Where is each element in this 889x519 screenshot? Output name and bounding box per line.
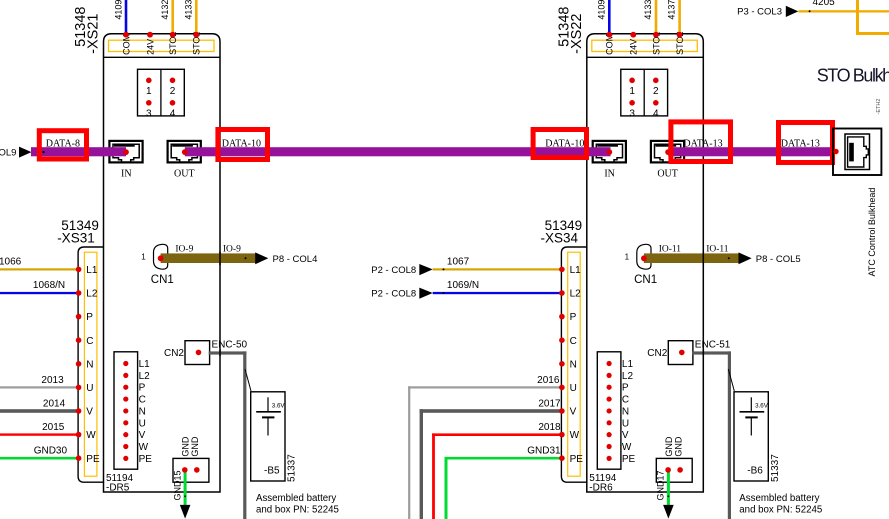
svg-text:GND30: GND30 [34, 446, 68, 457]
svg-text:DATA-13: DATA-13 [683, 139, 722, 150]
wire IO-9 (olive bus) [161, 253, 256, 263]
svg-text:51337: 51337 [770, 454, 781, 482]
svg-text:Assembled battery: Assembled battery [739, 493, 819, 504]
svg-text:and box PN: 52245: and box PN: 52245 [256, 505, 339, 516]
svg-text:1: 1 [141, 253, 146, 262]
svg-text:W: W [570, 430, 580, 441]
net box DATA-13 [671, 122, 731, 162]
wire DATA-13 segment (purple, right OUT to bulkhead) [668, 147, 835, 156]
pin 1 [629, 78, 635, 84]
svg-text:P2 - COL8: P2 - COL8 [371, 265, 416, 276]
svg-text:3: 3 [629, 108, 635, 119]
ATC control bulkhead jack box [833, 129, 881, 176]
svg-text:ENC-50: ENC-50 [212, 340, 248, 351]
battery -B6 box [734, 392, 768, 481]
node on wire 1069/N [443, 292, 445, 294]
node at bulkhead jack [833, 149, 838, 154]
svg-text:1066: 1066 [0, 256, 22, 267]
svg-text:1: 1 [629, 86, 635, 97]
wire 1067 (amber, to L1) [433, 268, 562, 270]
connector CN2 [668, 341, 693, 365]
svg-text:-B6: -B6 [747, 466, 763, 477]
svg-text:N: N [139, 406, 146, 417]
CN2 pin node [196, 350, 202, 356]
node on wire 1067 [443, 268, 445, 270]
svg-text:-XS31: -XS31 [57, 230, 95, 245]
51194-DR6 pin L1 [607, 361, 612, 366]
battery symbol [750, 397, 752, 411]
svg-text:V: V [139, 430, 146, 441]
arrow to P8 - COL5 [739, 252, 752, 264]
node right IN jack [606, 149, 612, 155]
CN1 pin node [641, 255, 647, 261]
svg-text:GND17: GND17 [656, 470, 666, 500]
svg-text:2: 2 [170, 86, 176, 97]
leader line to battery [245, 369, 251, 391]
node on DATA-8 wire [42, 151, 44, 153]
svg-text:24V: 24V [629, 39, 639, 55]
svg-text:ENC-51: ENC-51 [695, 340, 731, 351]
pin 4 [170, 100, 176, 106]
connector strip orange frame 51348-XS22 [592, 40, 698, 51]
CN2 pin node [679, 350, 685, 356]
51194-DR6 pin V [607, 432, 612, 437]
svg-text:-DR5: -DR5 [106, 482, 130, 493]
svg-text:2018: 2018 [538, 422, 561, 433]
51349-XS31 pin W node [76, 432, 82, 438]
connector strip separator 51348-XS22 [587, 56, 704, 58]
node left OUT jack [182, 149, 188, 155]
net box DATA-13 [779, 123, 833, 163]
svg-text:51337: 51337 [287, 454, 298, 482]
node right OUT jack [665, 149, 671, 155]
51194-DR6 pin PE [607, 456, 612, 461]
svg-text:1069/N: 1069/N [447, 280, 479, 291]
ground pin node 2 [194, 467, 200, 473]
connector CN1 [637, 244, 651, 269]
svg-text:2015: 2015 [42, 422, 65, 433]
51349-XS31 pin C node [76, 337, 82, 343]
svg-text:L2: L2 [139, 371, 151, 382]
ground pin node 1 [182, 467, 188, 473]
leader line to battery [728, 369, 734, 391]
51194-DR5 pin C [123, 396, 128, 401]
arrow P3-COL3 [786, 6, 799, 17]
51349-XS31 pin L1 node [76, 267, 82, 273]
51349-XS31 pin V node [76, 408, 82, 414]
svg-text:PE: PE [570, 454, 584, 465]
svg-text:U: U [622, 418, 629, 429]
wire 4133 (amber, to STO1) [655, 0, 658, 34]
svg-text:C: C [86, 336, 93, 347]
svg-text:IO-9: IO-9 [223, 244, 241, 254]
wire 4109 (blue, to COM) [608, 0, 611, 34]
yellow bus corner (vertical) [856, 0, 859, 35]
svg-text:P2 - COL8: P2 - COL8 [371, 289, 416, 300]
node on wire 4205 [809, 10, 811, 12]
svg-text:L2: L2 [86, 289, 98, 300]
svg-text:GND: GND [664, 436, 674, 457]
ethernet jack IN [109, 141, 142, 163]
CN1 pin node [158, 255, 164, 261]
svg-text:U: U [86, 383, 93, 394]
51349-XS31 pin U node [76, 385, 82, 391]
wire 4137 (amber, to STO2) [678, 0, 681, 34]
51194-DR6 pin W [607, 444, 612, 449]
wire 2014 (dark gray, to V) [0, 409, 79, 413]
connector CN1 [154, 244, 168, 269]
51349-XS34 pin P node [559, 314, 565, 320]
51349-XS34 pin PE node [559, 455, 565, 461]
51194-DR5 pin W [123, 444, 128, 449]
wire 1069/N (blue, to L2) [433, 292, 562, 294]
svg-text:-XS34: -XS34 [541, 230, 579, 245]
svg-text:W: W [86, 430, 96, 441]
svg-text:L1: L1 [139, 359, 151, 370]
svg-text:CN1: CN1 [151, 274, 174, 286]
svg-text:2014: 2014 [43, 398, 66, 409]
svg-text:GND: GND [181, 436, 191, 457]
svg-text:2: 2 [653, 86, 659, 97]
svg-text:GND31: GND31 [527, 446, 561, 457]
pin 3 [146, 100, 152, 106]
connector 51349-XS31 orange frame [84, 252, 97, 476]
ground terminal box [173, 458, 209, 482]
wire GND31 (green, from bottom to PE) [445, 457, 448, 519]
svg-text:IO-11: IO-11 [659, 244, 682, 254]
svg-text:-B5: -B5 [264, 466, 280, 477]
wire 2015 (red, to W) [0, 433, 79, 435]
bulkhead jack inner [848, 137, 869, 167]
net box DATA-8 [39, 131, 86, 159]
ground arrow [663, 505, 674, 519]
svg-text:4133: 4133 [183, 0, 193, 20]
svg-text:4109: 4109 [597, 0, 607, 20]
svg-text:-XS21: -XS21 [86, 14, 102, 54]
svg-text:4: 4 [170, 108, 176, 119]
svg-text:C: C [139, 395, 146, 406]
svg-text:P8 - COL4: P8 - COL4 [273, 254, 318, 265]
svg-text:4137: 4137 [667, 0, 677, 20]
svg-text:1: 1 [146, 86, 152, 97]
connector strip separator 51348-XS21 [104, 56, 221, 58]
svg-text:and box PN: 52245: and box PN: 52245 [739, 505, 822, 516]
wire 2013 (gray, to U) [0, 386, 79, 388]
svg-text:4132: 4132 [160, 0, 170, 20]
ethernet jack IN [593, 141, 626, 163]
battery symbol [267, 397, 269, 411]
svg-text:-DR6: -DR6 [589, 482, 613, 493]
svg-text:P8 - COL5: P8 - COL5 [756, 254, 801, 265]
svg-text:N: N [570, 359, 577, 370]
51194-DR5 pin U [123, 420, 128, 425]
51194-DR5 pin P [123, 385, 128, 390]
connector 51194-DR6 box [597, 352, 621, 469]
node on IO-9 wire [245, 257, 247, 259]
svg-text:IN: IN [121, 169, 132, 180]
svg-text:4205: 4205 [813, 0, 836, 8]
arrow OL9 [19, 147, 32, 158]
wire 1066 (amber, to L1) [0, 268, 79, 270]
yellow bus corner (horizontal) [856, 32, 889, 35]
51349-XS34 pin C node [559, 337, 565, 343]
51194-DR5 pin N [123, 408, 128, 413]
node on ground wire [184, 495, 186, 497]
ground wire (green) [667, 470, 670, 505]
svg-text:DATA-10: DATA-10 [222, 139, 261, 150]
battery -B5 box [251, 392, 285, 481]
51194-DR5 pin PE [123, 456, 128, 461]
ground arrow [180, 505, 191, 519]
wire 4133 (amber, to STO2) [195, 0, 198, 34]
svg-text:4: 4 [653, 108, 659, 119]
connector 51194-DR5 box [114, 352, 138, 469]
svg-text:L1: L1 [570, 265, 582, 276]
wire DATA-10 segment (purple, left OUT to right IN) [185, 147, 611, 156]
51194-DR6 pin N [607, 408, 612, 413]
svg-text:STO Bulkhead: STO Bulkhead [817, 66, 889, 86]
connector 51349-XS34 orange frame [568, 252, 581, 476]
pin 2 [653, 78, 659, 84]
pin 1 [146, 78, 152, 84]
51349-XS34 pin V node [559, 408, 565, 414]
arrow P2-COL8 to 1067 [419, 264, 432, 275]
51194-DR6 pin P [607, 385, 612, 390]
51194-DR5 pin L1 [123, 361, 128, 366]
svg-text:2013: 2013 [41, 375, 64, 386]
net box DATA-10 [533, 130, 586, 158]
drive module -DR5 drive outline [104, 34, 221, 492]
wire IO-11 (olive bus) [644, 253, 739, 263]
svg-text:3.6V: 3.6V [272, 402, 286, 409]
svg-text:GND15: GND15 [172, 470, 182, 500]
node on ground wire [668, 495, 670, 497]
svg-text:W: W [139, 442, 149, 453]
svg-text:L1: L1 [622, 359, 634, 370]
wire GND30 (green, to PE) [0, 457, 79, 460]
arrow P2-COL8 to 1069/N [419, 288, 432, 299]
wire ENC-51 (gray cable) [692, 351, 731, 354]
pin 2 [170, 78, 176, 84]
svg-text:L1: L1 [86, 265, 98, 276]
svg-text:P: P [86, 312, 93, 323]
ground pin node 1 [665, 467, 671, 473]
svg-text:C: C [622, 395, 629, 406]
51349-XS31 pin P node [76, 314, 82, 320]
svg-text:P: P [139, 383, 146, 394]
svg-text:L2: L2 [570, 289, 582, 300]
51349-XS34 pin N node [559, 361, 565, 367]
svg-text:P: P [570, 312, 577, 323]
51194-DR6 pin U [607, 420, 612, 425]
connector 51349-XS34 outline [561, 247, 586, 482]
51349-XS34 pin W node [559, 432, 565, 438]
svg-text:4109: 4109 [113, 0, 123, 20]
svg-text:OL9: OL9 [0, 147, 16, 158]
svg-text:-XS22: -XS22 [569, 14, 585, 54]
ground wire (green) [184, 470, 187, 505]
terminal box pins 1-4 [621, 69, 668, 116]
pin 3 [629, 100, 635, 106]
module edge overdraw (edge passes over wires) [219, 252, 221, 265]
pin 4 [653, 100, 659, 106]
module edge overdraw (edge passes over wires) [702, 252, 704, 265]
svg-text:24V: 24V [145, 39, 155, 55]
svg-text:DATA-10: DATA-10 [545, 139, 584, 150]
svg-text:C: C [570, 336, 577, 347]
wire 4205 (amber) [798, 10, 889, 12]
svg-text:OUT: OUT [174, 169, 195, 180]
svg-text:W: W [622, 442, 632, 453]
connector strip orange frame 51348-XS21 [109, 40, 215, 51]
svg-text:2016: 2016 [537, 375, 560, 386]
51349-XS34 pin U node [559, 385, 565, 391]
svg-text:GND: GND [190, 436, 200, 457]
51349-XS31 pin N node [76, 361, 82, 367]
svg-text:PE: PE [86, 454, 100, 465]
connector CN2 [185, 341, 210, 365]
ground terminal box [656, 458, 692, 482]
svg-text:ATC Control Bulkhead: ATC Control Bulkhead [867, 188, 877, 277]
wire 2018 (red, from bottom to W) [432, 433, 435, 519]
svg-text:P: P [622, 383, 629, 394]
51194-DR6 pin L2 [607, 373, 612, 378]
svg-text:V: V [86, 407, 93, 418]
51194-DR5 pin V [123, 432, 128, 437]
strip pin nodes [606, 32, 612, 38]
svg-text:PE: PE [622, 454, 636, 465]
ethernet jack OUT [651, 141, 684, 163]
svg-text:IO-9: IO-9 [175, 244, 193, 254]
svg-text:-ETH2: -ETH2 [876, 99, 882, 115]
svg-text:Assembled battery: Assembled battery [256, 493, 336, 504]
svg-text:PE: PE [139, 454, 153, 465]
svg-text:U: U [139, 418, 146, 429]
svg-text:DATA-8: DATA-8 [46, 139, 80, 150]
svg-text:OUT: OUT [657, 169, 678, 180]
connector 51349-XS31 outline [78, 247, 103, 482]
svg-text:4133: 4133 [643, 0, 653, 20]
svg-text:3.6V: 3.6V [755, 402, 769, 409]
51349-XS34 pin L1 node [559, 267, 565, 273]
wire ENC-50 (gray cable) [209, 351, 247, 354]
51349-XS31 pin L2 node [76, 290, 82, 296]
51349-XS34 pin L2 node [559, 290, 565, 296]
ground pin node 2 [677, 467, 683, 473]
wire DATA-8 segment (purple, to left IN) [31, 147, 126, 156]
svg-text:N: N [86, 359, 93, 370]
51194-DR6 pin C [607, 396, 612, 401]
svg-text:DATA-13: DATA-13 [781, 139, 820, 150]
51349-XS31 pin PE node [76, 455, 82, 461]
svg-text:1: 1 [625, 253, 630, 262]
wire 4109 (blue, to COM) [125, 0, 128, 34]
strip pin nodes [123, 32, 129, 38]
svg-text:GND: GND [674, 436, 684, 457]
net box DATA-10 [218, 130, 268, 160]
ethernet jack OUT [168, 141, 201, 163]
svg-text:IO-11: IO-11 [706, 244, 729, 254]
svg-text:U: U [570, 383, 577, 394]
svg-text:P3 - COL3: P3 - COL3 [737, 7, 782, 18]
svg-text:1067: 1067 [447, 256, 470, 267]
svg-text:3: 3 [146, 108, 152, 119]
svg-text:2017: 2017 [538, 398, 561, 409]
terminal box pins 1-4 [138, 69, 185, 116]
bulkhead jack middle frame [845, 134, 870, 170]
svg-text:CN1: CN1 [634, 274, 657, 286]
svg-text:V: V [622, 430, 629, 441]
wire 2017 (dark gray, from bottom to V) [420, 409, 423, 519]
wire 4132 (amber, to STO1) [171, 0, 174, 34]
svg-text:IN: IN [604, 169, 615, 180]
wire 1068/N (blue, to L2) [0, 292, 79, 294]
node on IO-11 wire [728, 257, 730, 259]
svg-text:1068/N: 1068/N [33, 280, 65, 291]
svg-text:L2: L2 [622, 371, 634, 382]
wire 2016 (gray, from bottom to U) [408, 386, 410, 519]
svg-text:CN2: CN2 [164, 348, 184, 359]
51194-DR5 pin L2 [123, 373, 128, 378]
svg-text:V: V [570, 407, 577, 418]
arrow to P8 - COL4 [255, 252, 268, 264]
drive module -DR6 drive outline [587, 34, 704, 492]
svg-text:CN2: CN2 [647, 348, 667, 359]
node left IN jack [123, 149, 129, 155]
svg-text:N: N [622, 406, 629, 417]
